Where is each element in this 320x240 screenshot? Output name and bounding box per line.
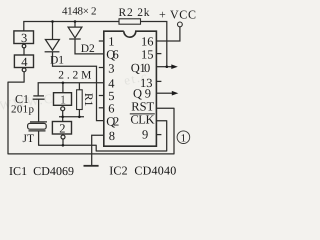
capacitor C1 <box>33 95 44 97</box>
svg-text:Q 10: Q 10 <box>131 61 151 75</box>
svg-text:R2 2k: R2 2k <box>119 7 150 19</box>
svg-text:3: 3 <box>21 31 27 45</box>
svg-text:15: 15 <box>141 47 154 61</box>
pin 6 stub <box>99 107 104 109</box>
pin 3 stub <box>99 67 104 69</box>
wire bubble1 to mid rail <box>62 111 64 117</box>
svg-text:201p: 201p <box>11 104 35 116</box>
pin 1 stub <box>99 40 104 42</box>
inverter box 4 <box>14 55 33 68</box>
wire pin16 to VCC <box>156 27 180 41</box>
wire R2 right lead down to Q10 row <box>141 22 167 67</box>
node dot R2 Q10 <box>166 65 169 68</box>
VCC terminal <box>178 22 183 27</box>
arrowhead Q9 <box>172 91 179 96</box>
crystal JT <box>30 121 47 123</box>
svg-text:4: 4 <box>21 55 28 69</box>
node dot mid rail right <box>78 116 81 119</box>
svg-text:6: 6 <box>108 101 114 115</box>
pin 13 stub <box>156 80 161 82</box>
wire oscillator output rail to CLK <box>39 121 167 151</box>
inverter box 3 <box>14 31 34 44</box>
wire C1 bottom to crystal <box>38 99 40 122</box>
pin 15 stub <box>156 53 161 55</box>
watermark <box>0 68 149 113</box>
wire top rail <box>24 22 119 31</box>
svg-text:3: 3 <box>108 62 114 76</box>
resistor R1 <box>77 90 83 110</box>
bubble of inverter 4 <box>22 68 26 72</box>
output marker circled 1 <box>177 131 190 145</box>
svg-text:9: 9 <box>142 128 148 142</box>
wire box1 input riser <box>62 83 64 93</box>
svg-text:4148× 2: 4148× 2 <box>62 6 97 18</box>
node dot D1 top <box>51 20 54 23</box>
diode D2 <box>74 22 76 28</box>
svg-text:IC2 CD4040: IC2 CD4040 <box>109 164 176 178</box>
diode D1 <box>52 22 54 40</box>
svg-text:1: 1 <box>60 93 66 107</box>
node dot box1 input <box>62 82 65 85</box>
svg-text:JT: JT <box>23 133 35 145</box>
wire mid rail <box>59 116 84 118</box>
wire bubble2 down <box>62 139 64 145</box>
svg-text:RST: RST <box>131 99 154 113</box>
pin 5 stub <box>99 95 104 97</box>
wire D2 cathode to pin Q6 <box>75 39 104 54</box>
svg-text:IC1 CD4069: IC1 CD4069 <box>9 164 74 178</box>
pin 9 stub <box>156 134 161 136</box>
svg-text:2: 2 <box>59 121 65 135</box>
ground <box>84 165 99 167</box>
wire D1 cathode to pin Q2 <box>53 52 104 121</box>
arrowhead Q10 <box>171 64 178 69</box>
svg-text:2 . 2 M: 2 . 2 M <box>58 70 91 82</box>
wire Q9 output arrow <box>156 92 172 94</box>
bubble of inverter 3 <box>22 44 26 48</box>
svg-text:CLK: CLK <box>130 113 154 127</box>
svg-text:R1: R1 <box>82 93 94 107</box>
svg-text:Q 6: Q 6 <box>106 48 119 62</box>
resistor R2 <box>119 19 141 24</box>
node dot D2 top <box>74 20 77 23</box>
wire bubble3 to box4 <box>23 48 25 55</box>
node dot box2 output <box>62 144 65 147</box>
svg-text:1: 1 <box>108 35 114 49</box>
bubble of inverter 1 <box>61 107 65 111</box>
wire R1 bottom lead <box>78 110 80 117</box>
node dot mid rail left <box>61 116 64 119</box>
svg-text:D1: D1 <box>50 55 64 67</box>
IC2 CD4040 box <box>104 31 157 146</box>
inverter box 1 <box>54 93 72 106</box>
svg-text:Q 2: Q 2 <box>106 115 119 129</box>
wire pin8 to ground <box>92 135 104 165</box>
wire box2 input riser <box>62 117 64 122</box>
wire inverter4 output to left edge down and along bottom to RST <box>8 72 174 154</box>
wire R1 top lead <box>78 83 80 90</box>
wire Q10 output arrow <box>156 66 172 68</box>
inverter box 2 <box>52 122 71 135</box>
svg-text:1: 1 <box>181 133 187 145</box>
wire oscillator input rail <box>38 83 104 96</box>
overline of CLK <box>130 113 155 115</box>
svg-text:+ VCC: + VCC <box>159 8 196 22</box>
bubble of inverter 2 <box>61 135 65 139</box>
svg-text:8: 8 <box>109 129 115 143</box>
svg-text:D2: D2 <box>81 43 95 55</box>
